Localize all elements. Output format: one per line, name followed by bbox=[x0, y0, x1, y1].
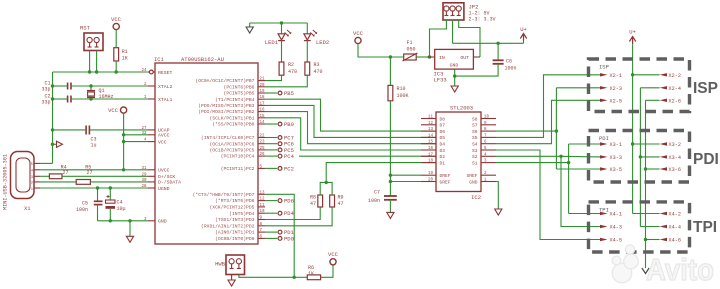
svg-text:28: 28 bbox=[141, 185, 147, 189]
svg-text:X2-6: X2-6 bbox=[669, 98, 681, 104]
wire PD7 to HWB net bbox=[265, 194, 294, 277]
svg-text:19: 19 bbox=[260, 90, 266, 94]
svg-text:X4-4: X4-4 bbox=[669, 225, 681, 231]
node PB0 bbox=[265, 121, 294, 128]
svg-text:S4: S4 bbox=[472, 142, 478, 148]
label R6 1K bbox=[308, 265, 314, 277]
label U+ bbox=[629, 29, 636, 36]
svg-text:LED2: LED2 bbox=[316, 39, 329, 46]
capacitor C1 bbox=[68, 83, 71, 90]
svg-text:PD0: PD0 bbox=[284, 235, 294, 242]
svg-text:18: 18 bbox=[260, 96, 266, 100]
wire R1 to RESET net bbox=[115, 61, 117, 72]
wire XTAL2 net bbox=[51, 84, 148, 87]
svg-text:HWB: HWB bbox=[215, 261, 226, 268]
label LED2 bbox=[316, 39, 329, 46]
svg-text:R8: R8 bbox=[310, 195, 316, 201]
svg-text:PDI: PDI bbox=[693, 151, 719, 168]
capacitor C5 bbox=[94, 188, 103, 221]
svg-text:S5: S5 bbox=[472, 135, 478, 141]
svg-text:X3-3: X3-3 bbox=[610, 155, 622, 161]
node X4-3 bbox=[600, 225, 622, 231]
wire GREF branch bbox=[390, 181, 421, 183]
svg-text:D4: D4 bbox=[440, 142, 446, 148]
wire PB4 to IC2 D6 bbox=[265, 99, 436, 131]
wire VBUS to UVCC bbox=[40, 169, 148, 171]
svg-text:X3-2: X3-2 bbox=[669, 142, 681, 148]
svg-text:(AIN0/INT1)PD1: (AIN0/INT1)PD1 bbox=[215, 230, 255, 236]
node X2-6 bbox=[660, 98, 681, 104]
label C2 33p bbox=[41, 94, 50, 106]
supply VCC symbol (top left) bbox=[113, 23, 119, 29]
svg-text:AT90USB162-AU: AT90USB162-AU bbox=[181, 56, 224, 63]
svg-text:(SCLK/PCINT1)PB1: (SCLK/PCINT1)PB1 bbox=[209, 115, 254, 121]
svg-text:(PCINT11)PC2: (PCINT11)PC2 bbox=[221, 166, 255, 172]
wire ground vertical to X2-6 X3-6 X4-6 bbox=[644, 100, 660, 268]
wire XTAL1 net bbox=[51, 97, 148, 100]
crystal Q1 bbox=[87, 86, 95, 99]
wire RST button pins down to RESET net bbox=[88, 51, 98, 74]
node X4-5 bbox=[600, 238, 622, 244]
svg-text:X4-1: X4-1 bbox=[610, 212, 622, 218]
svg-text:16: 16 bbox=[260, 109, 266, 113]
svg-text:R1: R1 bbox=[122, 49, 128, 55]
ground symbol (LED rail) bbox=[246, 27, 253, 33]
svg-text:GND: GND bbox=[450, 63, 459, 69]
wire UGND net bbox=[40, 186, 148, 189]
wire RESET net bbox=[53, 71, 150, 73]
wire VCC down to AVCC/VCC/UVCC pins bbox=[122, 113, 125, 171]
label R2 470 bbox=[288, 62, 297, 75]
wire PB3 to IC2 D5 bbox=[265, 105, 436, 137]
label VCC bbox=[111, 16, 122, 23]
svg-text:RESET: RESET bbox=[158, 70, 173, 76]
svg-text:X2-3: X2-3 bbox=[610, 86, 622, 92]
svg-text:S8: S8 bbox=[472, 116, 478, 122]
svg-text:LED1: LED1 bbox=[265, 39, 279, 46]
junction R1/RESET bbox=[115, 70, 118, 73]
svg-text:X3-6: X3-6 bbox=[669, 167, 681, 173]
svg-text:20: 20 bbox=[260, 84, 266, 88]
wire LED supply rail bbox=[250, 21, 308, 24]
wire R3 to PB6 bbox=[265, 75, 307, 87]
label VCC bbox=[108, 107, 119, 114]
svg-text:X2-2: X2-2 bbox=[669, 73, 681, 79]
svg-text:470: 470 bbox=[288, 69, 297, 75]
svg-text:050: 050 bbox=[407, 47, 416, 53]
LED1 bbox=[278, 23, 291, 62]
svg-text:11: 11 bbox=[428, 116, 434, 120]
svg-text:AVCC: AVCC bbox=[158, 133, 170, 139]
svg-text:STL2003: STL2003 bbox=[450, 105, 473, 112]
wire UCAP net bbox=[51, 128, 148, 131]
label R5 27 bbox=[85, 164, 92, 176]
svg-text:GREF: GREF bbox=[440, 179, 451, 185]
label R9 47 bbox=[338, 195, 344, 208]
svg-text:S1: S1 bbox=[472, 160, 478, 166]
IC2 left pins D8-D1, DREF, GREF bbox=[421, 116, 451, 186]
wire R8/R9 node to IC2 D1 bbox=[326, 163, 436, 183]
svg-text:100n: 100n bbox=[368, 198, 380, 204]
node X4-6 bbox=[660, 238, 681, 244]
svg-text:R10: R10 bbox=[397, 86, 406, 92]
wire PD3 to R8 bbox=[265, 207, 320, 220]
svg-text:470: 470 bbox=[314, 69, 323, 75]
svg-text:1u: 1u bbox=[91, 143, 97, 149]
label ISP (large) bbox=[693, 80, 718, 97]
svg-text:100K: 100K bbox=[397, 93, 409, 99]
node X3-3 bbox=[600, 155, 622, 161]
label JP2 1-2:5V 2-3:3.3V bbox=[469, 4, 496, 23]
ground arrow (bottom) bbox=[642, 268, 649, 274]
fuse F1 bbox=[403, 53, 418, 61]
supply VCC symbol (HWB pullup) bbox=[330, 259, 336, 265]
wire D+ to IC1 bbox=[62, 175, 148, 177]
svg-text:(OC0A/OC1C/PCINT7)PB7: (OC0A/OC1C/PCINT7)PB7 bbox=[195, 78, 254, 84]
svg-text:UGND: UGND bbox=[158, 186, 170, 192]
svg-text:47: 47 bbox=[338, 201, 344, 207]
svg-text:18: 18 bbox=[428, 160, 434, 164]
wire S3 to X4-5 bbox=[496, 150, 600, 240]
svg-text:X4-2: X4-2 bbox=[669, 212, 681, 218]
ground symbol (USB area) bbox=[126, 236, 133, 242]
svg-text:D6: D6 bbox=[440, 129, 446, 135]
svg-text:(PDI/MOSI/PCINT2)PB2: (PDI/MOSI/PCINT2)PB2 bbox=[198, 109, 254, 115]
pushbutton RST S1 bbox=[84, 33, 103, 51]
resistor R9 bbox=[330, 195, 335, 207]
wire D+ left segment bbox=[40, 175, 49, 177]
label IC3 LF33 bbox=[434, 71, 447, 84]
label R8 47 bbox=[310, 195, 316, 208]
svg-text:31: 31 bbox=[141, 167, 147, 171]
svg-text:(*CTS/*HWB/T0/INT7)PD7: (*CTS/*HWB/T0/INT7)PD7 bbox=[193, 192, 255, 198]
svg-text:(OC1A/PCINT8)PC6: (OC1A/PCINT8)PC6 bbox=[209, 141, 254, 147]
svg-text:S2: S2 bbox=[472, 154, 478, 160]
svg-text:D1: D1 bbox=[440, 160, 446, 166]
svg-text:100n: 100n bbox=[76, 207, 88, 213]
svg-text:XTAL2: XTAL2 bbox=[158, 84, 173, 90]
supply VCC symbol (mid left) bbox=[121, 107, 127, 113]
wire HWB net to R6 bbox=[294, 276, 307, 278]
LED2 bbox=[304, 23, 317, 62]
IC2 right pins S8-S1, SREF, GND bbox=[466, 116, 496, 186]
wire D- left segment bbox=[40, 181, 76, 183]
IC3 OUT pin stub bbox=[473, 56, 480, 58]
wire R6 to VCC bbox=[321, 265, 333, 277]
wire JP2 pin3 to IC3 OUT bbox=[459, 20, 480, 57]
supply VCC symbol (power input) bbox=[355, 37, 361, 43]
label U+ bbox=[520, 26, 527, 33]
ground symbol (HWB) bbox=[228, 280, 235, 286]
wire VCC to F1 and R10 junction bbox=[358, 44, 404, 59]
wire IC2 GND to ground bbox=[496, 182, 498, 210]
label TPI (large) bbox=[693, 219, 717, 236]
svg-text:15: 15 bbox=[428, 141, 434, 145]
svg-text:UVCC: UVCC bbox=[158, 168, 170, 174]
svg-text:12: 12 bbox=[428, 122, 434, 126]
svg-text:X3-1: X3-1 bbox=[610, 142, 622, 148]
driver IC2 STL2003 body bbox=[436, 112, 481, 192]
svg-text:LF33: LF33 bbox=[434, 77, 447, 84]
svg-text:(T1/PCINT4)PB4: (T1/PCINT4)PB4 bbox=[215, 97, 255, 103]
svg-text:27: 27 bbox=[63, 170, 69, 176]
svg-text:16MHz: 16MHz bbox=[99, 94, 114, 100]
wire VCC to R1 bbox=[115, 30, 117, 48]
watermark Avito logo circles bbox=[612, 245, 638, 283]
svg-text:SREF: SREF bbox=[466, 173, 477, 179]
svg-text:X2-1: X2-1 bbox=[610, 73, 622, 79]
svg-text:24: 24 bbox=[141, 69, 147, 73]
wire PC4 to IC2 D2 bbox=[299, 155, 436, 157]
svg-text:(*RTS/INT6)PD6: (*RTS/INT6)PD6 bbox=[215, 198, 255, 204]
node PC6 bbox=[265, 141, 294, 148]
wire left gnd-vertical rail bbox=[52, 72, 54, 163]
wire F1 to IC3 IN bbox=[416, 55, 431, 58]
label C3 1u bbox=[91, 137, 97, 149]
svg-text:VCC: VCC bbox=[328, 251, 339, 258]
wire HWB right pin to HWB net bbox=[239, 275, 296, 279]
resistor R8 bbox=[318, 195, 323, 207]
svg-text:X1: X1 bbox=[24, 205, 31, 212]
svg-text:C6: C6 bbox=[506, 59, 512, 65]
node PD1 bbox=[265, 229, 295, 236]
svg-text:PD4: PD4 bbox=[284, 210, 295, 217]
svg-text:(PDO/MISO/PCINT3)PB3: (PDO/MISO/PCINT3)PB3 bbox=[198, 103, 254, 109]
svg-text:(OC1B/PCINT9)PC5: (OC1B/PCINT9)PC5 bbox=[209, 148, 254, 154]
svg-text:33p: 33p bbox=[41, 100, 50, 106]
svg-text:S3: S3 bbox=[472, 148, 478, 154]
ground symbol (IC2) bbox=[495, 209, 502, 215]
wire U+ vertical to X2-2 X3-2 X4-2 bbox=[631, 44, 660, 213]
label IC1 AT90USB162-AU bbox=[154, 56, 224, 63]
label STL2003 bbox=[450, 105, 473, 112]
label PDI (large) bbox=[693, 151, 719, 168]
node PC4 bbox=[265, 153, 295, 160]
svg-text:IC2: IC2 bbox=[471, 194, 481, 201]
svg-text:C4: C4 bbox=[117, 200, 123, 206]
resistor R6 bbox=[307, 275, 320, 280]
svg-text:10µ: 10µ bbox=[117, 206, 126, 212]
svg-text:1K: 1K bbox=[122, 56, 128, 62]
svg-text:X4-5: X4-5 bbox=[610, 238, 622, 244]
svg-text:IC1: IC1 bbox=[154, 56, 165, 63]
IC1 left pins with names and numbers bbox=[141, 69, 181, 225]
svg-text:27: 27 bbox=[141, 127, 147, 131]
svg-text:JP2: JP2 bbox=[469, 4, 479, 11]
resistor R1 bbox=[114, 48, 119, 61]
resistor R10 bbox=[388, 85, 393, 100]
wire R10 drop bbox=[389, 57, 391, 85]
svg-text:(INT5)PD4: (INT5)PD4 bbox=[229, 211, 255, 217]
node PD6 bbox=[265, 198, 294, 205]
connector box PDI (dashed) bbox=[589, 131, 690, 183]
svg-text:100n: 100n bbox=[505, 66, 517, 72]
svg-text:PDI: PDI bbox=[599, 135, 609, 142]
svg-text:IN: IN bbox=[439, 55, 445, 61]
pushbutton HWB S2 bbox=[226, 255, 245, 275]
wire JP2 pin2 to U+ rail bbox=[452, 20, 454, 43]
capacitor C3 bbox=[86, 126, 89, 135]
svg-text:PD6: PD6 bbox=[284, 198, 294, 205]
svg-text:23: 23 bbox=[260, 141, 266, 145]
wire PB2 to IC2 D4 bbox=[265, 112, 436, 144]
connector box ISP (dashed) bbox=[589, 59, 690, 112]
svg-text:11: 11 bbox=[260, 204, 266, 208]
node X2-4 bbox=[660, 86, 681, 92]
svg-text:S7: S7 bbox=[472, 123, 478, 129]
node PD4 bbox=[265, 210, 295, 217]
label VCC bbox=[353, 30, 364, 37]
svg-text:(PCINT10)PC4: (PCINT10)PC4 bbox=[221, 154, 255, 160]
wire U+ rail bbox=[453, 42, 524, 45]
svg-text:14: 14 bbox=[260, 121, 266, 125]
label C7 100n bbox=[368, 190, 380, 205]
resistor R3 bbox=[305, 62, 310, 75]
node X3-1 bbox=[600, 142, 622, 148]
svg-text:22: 22 bbox=[260, 135, 266, 139]
label C5 100n bbox=[76, 201, 88, 214]
node X3-5 bbox=[600, 167, 622, 173]
label VCC bbox=[328, 251, 339, 258]
svg-text:TPI: TPI bbox=[693, 219, 717, 236]
svg-text:X3-4: X3-4 bbox=[669, 155, 681, 161]
wire HWB left pin to ground bbox=[231, 275, 233, 281]
wire ground rail below C4/C5 to IC1 GND pin bbox=[98, 219, 149, 222]
svg-text:X3-5: X3-5 bbox=[610, 167, 622, 173]
node PC5 bbox=[265, 147, 294, 154]
connector X1 MINI-USB bbox=[11, 152, 41, 199]
wire USB shield to left rail bbox=[40, 162, 53, 164]
wire R8/R9 tops joined bbox=[320, 181, 332, 195]
svg-text:GND: GND bbox=[469, 179, 478, 185]
svg-text:ISP: ISP bbox=[599, 64, 609, 71]
svg-text:PB0: PB0 bbox=[284, 121, 294, 128]
svg-text:DREF: DREF bbox=[440, 173, 451, 179]
wire S4 to X2-5 bbox=[496, 100, 600, 143]
svg-text:RST: RST bbox=[80, 25, 91, 32]
svg-text:19: 19 bbox=[428, 172, 434, 176]
svg-text:D+/SCK: D+/SCK bbox=[158, 174, 175, 180]
wire PD2 to R9 bbox=[265, 207, 332, 226]
svg-text:33p: 33p bbox=[41, 87, 50, 93]
svg-text:R3: R3 bbox=[314, 62, 320, 68]
svg-text:17: 17 bbox=[428, 153, 434, 157]
label R3 470 bbox=[314, 62, 323, 75]
jumper JP2 bbox=[443, 3, 464, 20]
svg-text:Avito: Avito bbox=[646, 252, 714, 287]
resistor R5 bbox=[76, 180, 90, 185]
svg-text:PC2: PC2 bbox=[284, 165, 294, 172]
svg-text:R2: R2 bbox=[288, 62, 294, 68]
svg-text:D7: D7 bbox=[440, 123, 446, 129]
IC3 IN pin stub bbox=[427, 56, 435, 58]
label LED1 bbox=[265, 39, 279, 46]
wire down to ground arrow bbox=[129, 221, 131, 237]
label R10 100K bbox=[397, 86, 409, 99]
label C1 33p bbox=[41, 81, 50, 93]
svg-text:ISP: ISP bbox=[693, 80, 718, 97]
label F1 050 bbox=[407, 40, 416, 53]
svg-text:13: 13 bbox=[428, 128, 434, 132]
resistor R4 bbox=[49, 174, 62, 179]
svg-text:OUT: OUT bbox=[460, 55, 469, 61]
svg-text:PB5: PB5 bbox=[284, 90, 294, 97]
wire AVCC branch bbox=[124, 134, 148, 136]
wire R2 to PB7 bbox=[265, 75, 282, 80]
node PB5 bbox=[265, 90, 294, 97]
wire shared vertical to X2-4 X3-4 X4-4 bbox=[639, 88, 660, 227]
svg-text:X4-3: X4-3 bbox=[610, 225, 622, 231]
wire D- to IC1 bbox=[90, 181, 148, 183]
node PC2 bbox=[265, 165, 294, 172]
svg-text:D-/SDATA: D-/SDATA bbox=[158, 180, 181, 186]
wire S1 to X3-1 and X4-1 bbox=[496, 144, 600, 214]
svg-text:MINI-USB-32005-301: MINI-USB-32005-301 bbox=[3, 154, 9, 210]
svg-text:PC4: PC4 bbox=[284, 153, 295, 160]
svg-text:26: 26 bbox=[260, 153, 266, 157]
svg-text:VCC: VCC bbox=[111, 16, 122, 23]
node X4-2 bbox=[660, 212, 681, 218]
IC1 right pins with names and numbers bbox=[193, 78, 265, 242]
wire PB1 to IC2 D3 bbox=[265, 118, 436, 150]
svg-text:D5: D5 bbox=[440, 135, 446, 141]
wire IC3 GND pin down bbox=[453, 69, 456, 86]
wire S5 to X2-1 bbox=[496, 75, 600, 138]
label R1 1K bbox=[122, 49, 128, 62]
node PC7 bbox=[265, 135, 294, 142]
svg-text:U+: U+ bbox=[520, 26, 527, 33]
wire VCC branch bbox=[124, 141, 148, 143]
svg-text:17: 17 bbox=[260, 102, 266, 106]
svg-text:X2-4: X2-4 bbox=[669, 86, 681, 92]
svg-text:30: 30 bbox=[141, 179, 147, 183]
svg-text:R9: R9 bbox=[338, 195, 344, 201]
node PD0 bbox=[265, 235, 294, 242]
wire S6 to X2-3 and X3-5 bbox=[496, 88, 600, 169]
label C4 10u bbox=[117, 200, 126, 213]
svg-text:27: 27 bbox=[87, 170, 93, 176]
connector box TPI (dashed) bbox=[589, 202, 690, 252]
shield arrow node bbox=[51, 141, 63, 147]
svg-text:32: 32 bbox=[141, 132, 147, 136]
capacitor C6 bbox=[455, 43, 504, 76]
label IC2 bbox=[471, 194, 481, 201]
svg-text:C5: C5 bbox=[82, 201, 88, 207]
svg-text:10: 10 bbox=[484, 116, 490, 120]
wire JP2 pin1 to IC3 IN bbox=[430, 20, 447, 57]
capacitor C4 electrolytic bbox=[106, 188, 116, 221]
watermark Avito text bbox=[646, 252, 714, 287]
node X2-3 bbox=[600, 86, 622, 92]
node X3-6 bbox=[660, 167, 681, 173]
node X2-2 bbox=[660, 73, 681, 79]
svg-text:VCC: VCC bbox=[108, 107, 119, 114]
svg-text:2-3: 3.3V: 2-3: 3.3V bbox=[469, 17, 496, 23]
svg-text:D8: D8 bbox=[440, 116, 446, 122]
svg-text:(XCK/PCINT12)PD5: (XCK/PCINT12)PD5 bbox=[209, 205, 254, 211]
wire R10 to DREF/GREF and C7 bbox=[389, 101, 392, 196]
node X3-4 bbox=[660, 155, 681, 161]
svg-text:14: 14 bbox=[428, 134, 434, 138]
svg-text:16: 16 bbox=[428, 147, 434, 151]
node X4-4 bbox=[660, 225, 681, 231]
svg-text:13: 13 bbox=[260, 191, 266, 195]
svg-text:X2-5: X2-5 bbox=[610, 98, 622, 104]
svg-text:VCC: VCC bbox=[353, 30, 364, 37]
label R4 27 bbox=[61, 164, 69, 176]
svg-text:U+: U+ bbox=[629, 29, 636, 36]
label HWB bbox=[215, 261, 226, 268]
